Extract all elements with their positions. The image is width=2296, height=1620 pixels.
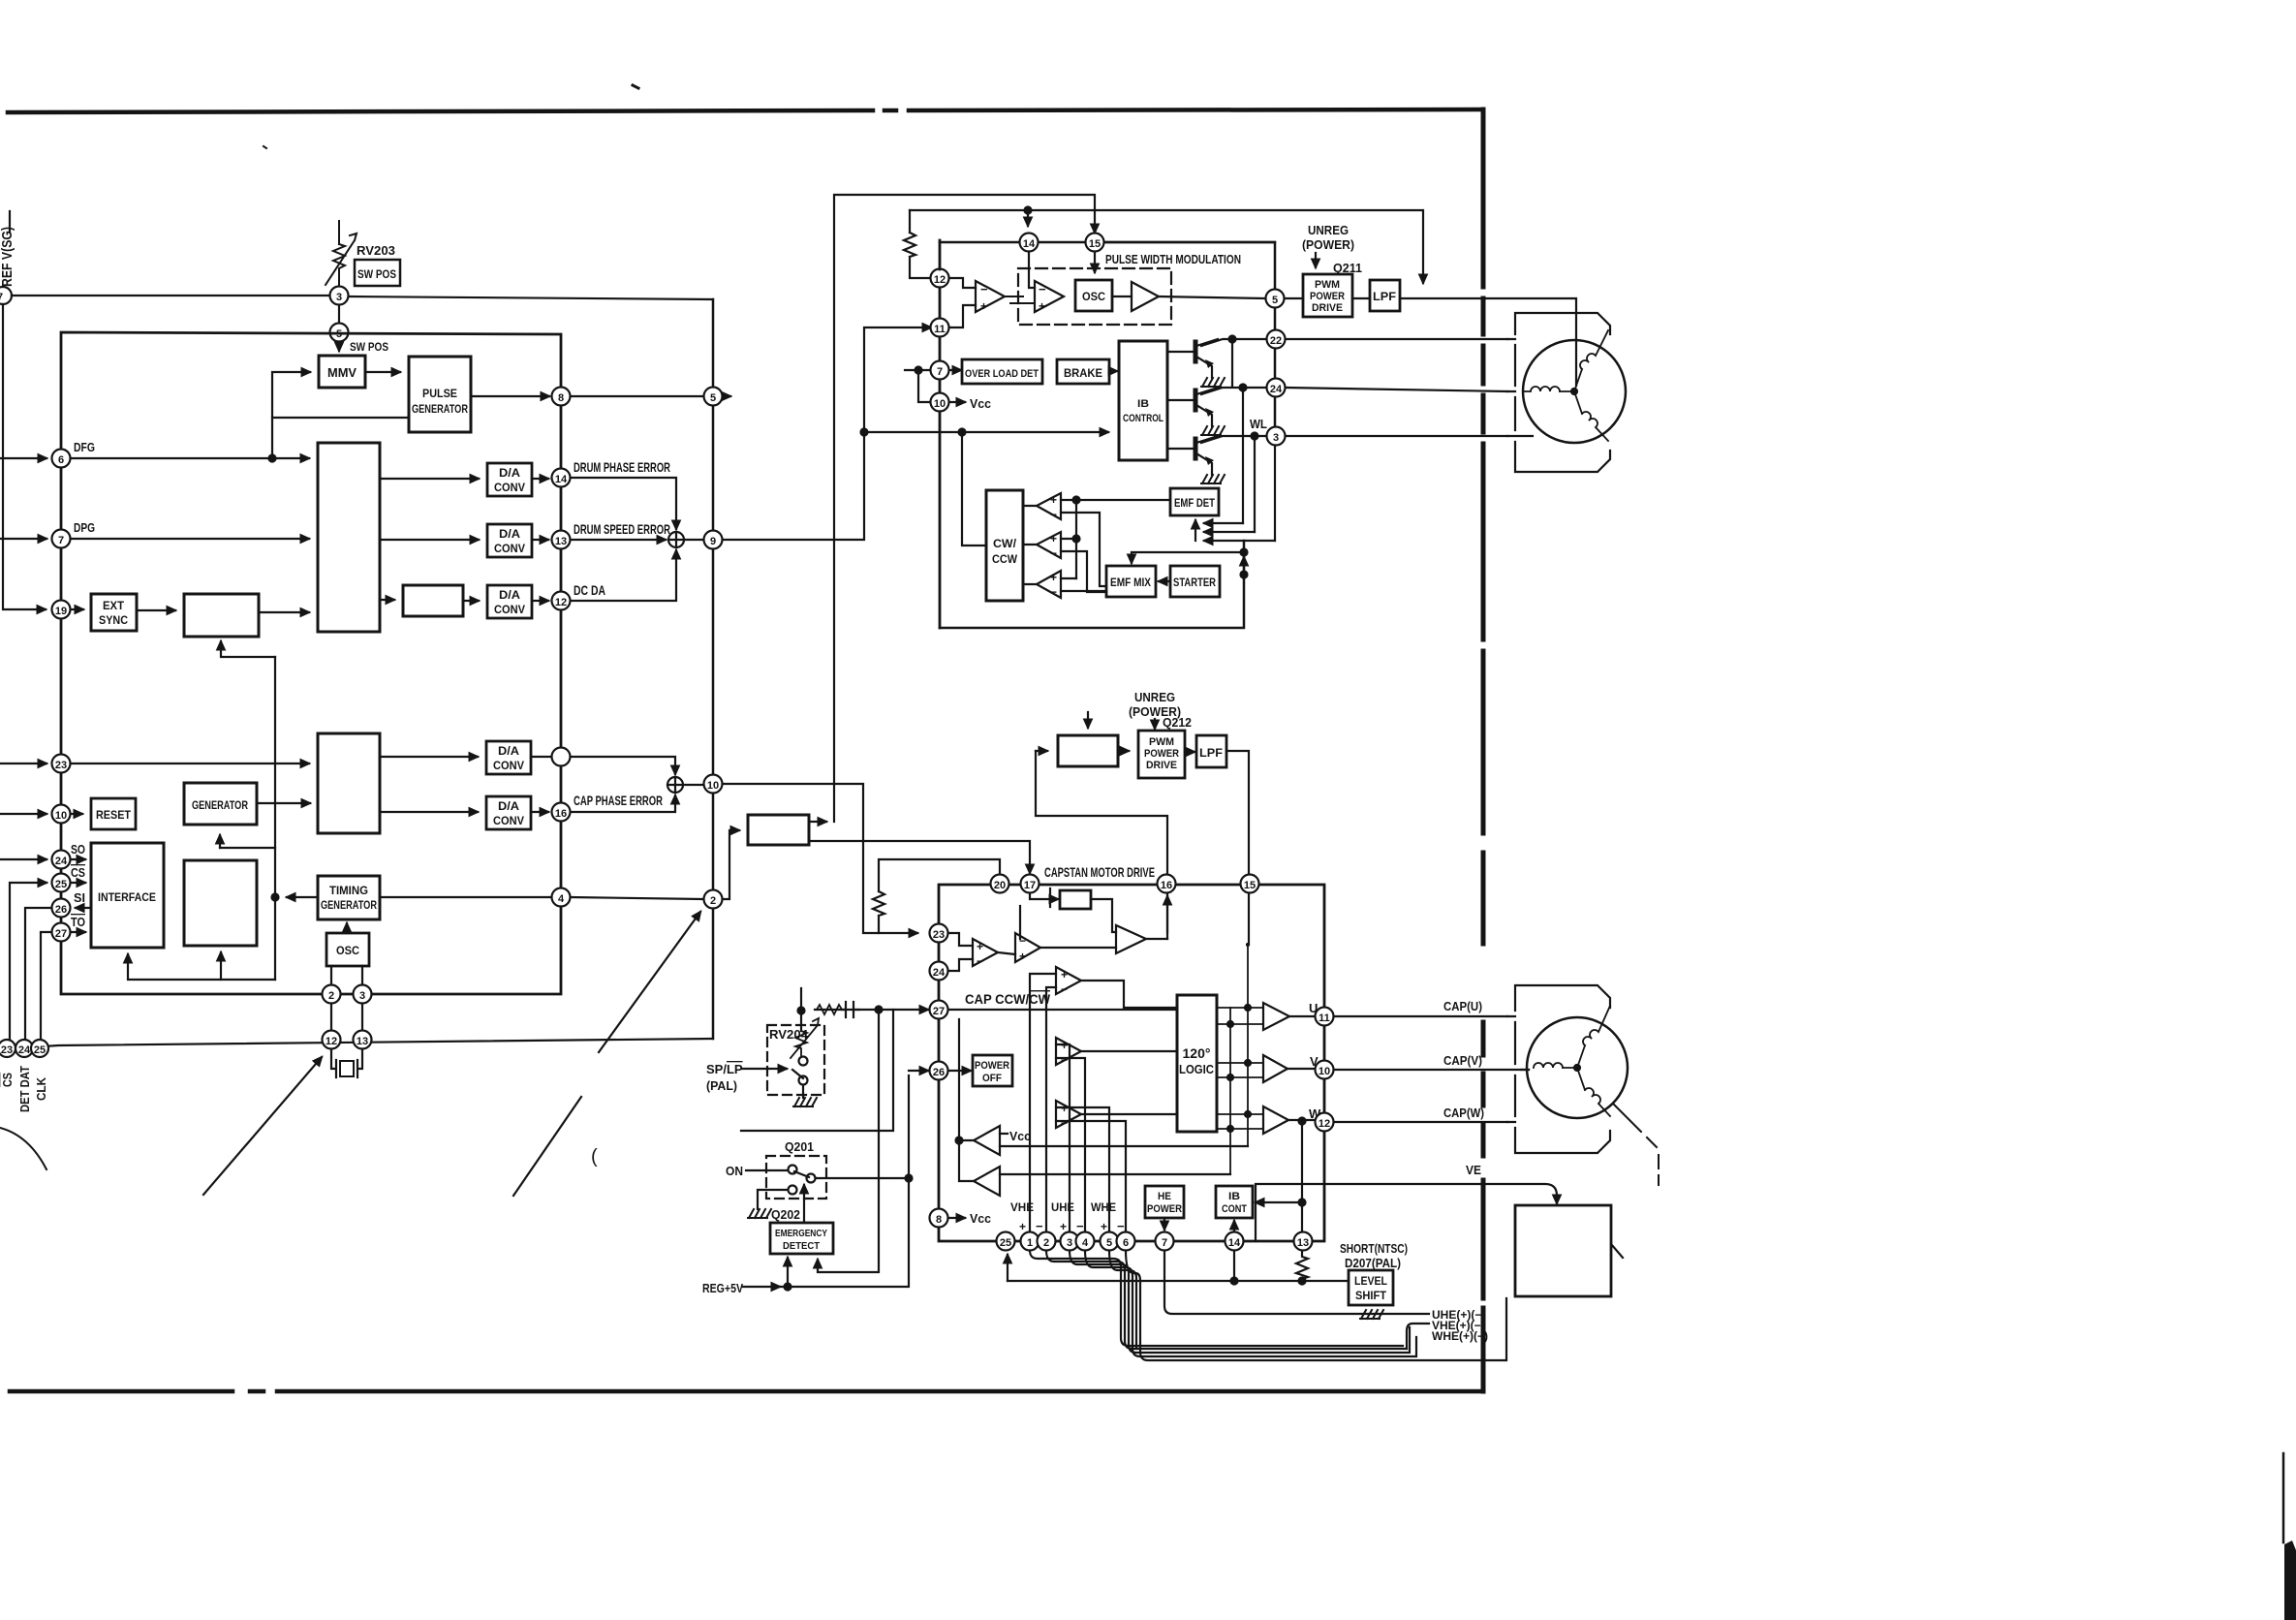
wire pin22 to motor	[1286, 338, 1507, 340]
wire reg5v to pin25	[1007, 1255, 1008, 1281]
svg-text:CONTROL: CONTROL	[1123, 413, 1164, 424]
svg-text:(POWER): (POWER)	[1302, 237, 1354, 252]
svg-text:7: 7	[58, 535, 64, 546]
wire pin3 to pin5	[338, 305, 340, 323]
svg-text:VE: VE	[1466, 1163, 1481, 1177]
wire OSC pins down	[331, 966, 362, 984]
svg-text:CAP(U): CAP(U)	[1443, 999, 1482, 1013]
ground (Q3)	[1201, 475, 1225, 483]
svg-text:−: −	[1050, 546, 1057, 560]
node REF V(SG) label	[0, 227, 16, 287]
pin 12 (cap W)	[1316, 1113, 1334, 1132]
svg-text:6: 6	[58, 454, 64, 466]
svg-text:−: −	[980, 282, 988, 296]
svg-text:13: 13	[357, 1036, 368, 1047]
pin 10 (cap error out)	[704, 775, 723, 794]
wire pin8 vcc	[948, 1217, 965, 1219]
wire into boxF top	[1087, 712, 1089, 728]
svg-text:5: 5	[1106, 1237, 1112, 1249]
svg-text:10: 10	[55, 810, 67, 822]
wire summer2 to pin10b	[683, 784, 702, 786]
box IB CONT	[1216, 1186, 1253, 1218]
wire D/A3 to pin12	[532, 600, 548, 602]
svg-text:PULSE WIDTH MODULATION: PULSE WIDTH MODULATION	[1105, 252, 1241, 266]
svg-text:10: 10	[934, 398, 946, 410]
svg-text:DETECT: DETECT	[783, 1240, 821, 1252]
wire CAP W	[1334, 1121, 1507, 1123]
box D/A CONV 5	[486, 796, 531, 829]
wire transistor1 collector bus	[1201, 339, 1266, 346]
svg-text:OSC: OSC	[1082, 290, 1105, 303]
svg-text:−: −	[977, 954, 983, 968]
svg-text:(PAL): (PAL)	[706, 1078, 737, 1093]
wire amp fb column 1	[1229, 1008, 1231, 1174]
wire rv204 column	[800, 988, 802, 1031]
wire REG to EMERGENCY DETECT	[787, 1258, 789, 1287]
svg-text:EXT: EXT	[103, 599, 125, 612]
svg-text:14: 14	[1228, 1237, 1241, 1249]
svg-text:16: 16	[555, 808, 567, 820]
pin 23 (capstan)	[930, 924, 948, 943]
resistor (pin20 bias)	[873, 891, 884, 933]
box CW/CCW	[986, 490, 1023, 601]
transistor Q (drum W)	[1167, 436, 1218, 475]
svg-text:17: 17	[1024, 880, 1036, 891]
svg-text:14: 14	[1023, 238, 1036, 250]
wire left drop to pin19	[3, 304, 46, 609]
svg-text:+: +	[1061, 968, 1068, 981]
wire pin25 to INTERFACE	[71, 882, 85, 884]
capstan motor coil W	[1585, 1088, 1610, 1116]
svg-text:+: +	[1039, 299, 1045, 313]
box EMF MIX	[1106, 566, 1156, 597]
svg-text:26: 26	[55, 904, 67, 916]
wire GENERATOR bottom feedback	[219, 835, 221, 848]
wire ON to switch	[746, 1169, 787, 1171]
svg-text:22: 22	[1270, 335, 1282, 347]
svg-text:SI: SI	[74, 890, 85, 905]
wire pin14/15 top bus	[940, 241, 1275, 244]
label SW POS	[350, 340, 388, 354]
svg-text:PWM: PWM	[1315, 279, 1340, 291]
svg-text:+: +	[1050, 571, 1057, 584]
drum motor coil V	[1523, 387, 1560, 391]
wire rv204 net	[815, 1009, 928, 1011]
svg-text:CW/: CW/	[993, 537, 1017, 550]
hall bundle line 6	[1126, 1251, 1140, 1353]
svg-text:6: 6	[1123, 1237, 1129, 1249]
pin 3 (osc)	[354, 985, 372, 1004]
svg-text:Q212: Q212	[1163, 715, 1192, 730]
wire D/A2 to pin13	[532, 539, 548, 541]
svg-text:LEVEL: LEVEL	[1354, 1276, 1387, 1288]
label UNREG (POWER)	[1302, 223, 1354, 252]
label CLK vertical	[34, 1076, 48, 1101]
svg-text:UNREG: UNREG	[1308, 223, 1349, 237]
wire ampW out	[1023, 583, 1037, 585]
svg-text:24: 24	[55, 856, 68, 867]
svg-text:5: 5	[710, 392, 716, 404]
svg-text:STARTER: STARTER	[1173, 577, 1217, 589]
wire BRAKE to IB CONTROL	[1109, 370, 1117, 372]
pin 3 (cap)	[1061, 1232, 1079, 1251]
wire boxE out to drum riser	[809, 821, 826, 823]
svg-text:20: 20	[994, 880, 1006, 891]
svg-text:Q202: Q202	[771, 1207, 800, 1222]
wire Q201 out to pin26 riser	[816, 1075, 909, 1178]
pin 11 (drum)	[931, 319, 949, 337]
pin 4 (cap)	[1076, 1232, 1095, 1251]
wire pin5b arrow out	[723, 395, 730, 397]
svg-text:D207(PAL): D207(PAL)	[1345, 1257, 1401, 1270]
box SW POS (RV203)	[355, 260, 400, 286]
label CAP PHASE ERROR	[574, 793, 663, 808]
drum motor center node	[1571, 389, 1577, 394]
wire DPG in	[0, 538, 47, 540]
svg-text:23: 23	[55, 760, 67, 771]
switch Q201	[789, 1166, 797, 1174]
box HE POWER	[1145, 1186, 1184, 1218]
pin 14	[552, 469, 571, 487]
wire D/A5 to pin16	[531, 811, 548, 813]
label WHE(+)(-)	[1432, 1329, 1488, 1343]
wire pin2 riser	[1046, 987, 1056, 1231]
op-amp (pwm comparator)	[1035, 281, 1064, 312]
label CAP CCW/CW	[965, 991, 1051, 1007]
wire SP/LP to switch	[742, 1068, 787, 1070]
wire buffer to pin5c	[1159, 296, 1264, 298]
pin 27	[52, 923, 71, 942]
svg-text:3: 3	[1067, 1237, 1072, 1249]
dashed box Q201	[766, 1156, 826, 1199]
wire boxD to D/A3	[463, 600, 479, 602]
resistor (sp/lp)	[817, 1005, 842, 1014]
wire pin7 to pin3 to corner (outer top edge)	[12, 295, 330, 296]
wire pin17 to delay box	[1030, 893, 1058, 899]
svg-text:26: 26	[933, 1067, 945, 1078]
box IB CONTROL	[1119, 341, 1167, 460]
wire pin26 row	[909, 1070, 928, 1072]
svg-text:8: 8	[936, 1214, 942, 1226]
svg-text:+: +	[1060, 1220, 1067, 1233]
svg-text:24: 24	[933, 967, 946, 979]
label UHE(+)(-)	[1432, 1308, 1485, 1322]
wire CS from bottom	[10, 883, 47, 1041]
ground (Q1)	[1201, 378, 1225, 387]
wire boxE out to pin17	[809, 841, 1030, 873]
rect1 (drum counter)	[318, 443, 380, 632]
wire pin13 to summer1	[571, 539, 666, 541]
svg-text:CAP(W): CAP(W)	[1443, 1106, 1484, 1120]
wire ampA to ampB	[998, 952, 1015, 954]
svg-text:+: +	[977, 940, 983, 953]
node bottom edge circle 24	[16, 1040, 33, 1057]
svg-text:3: 3	[1273, 432, 1279, 444]
wire rv net drop	[818, 1010, 879, 1272]
svg-text:10: 10	[1319, 1066, 1330, 1077]
svg-text:PULSE: PULSE	[422, 387, 457, 400]
dashed stub before delay box	[1049, 888, 1051, 910]
wire vcc stub to pin7/pin10	[905, 369, 930, 371]
pin 7 (cap)	[1156, 1232, 1174, 1251]
svg-text:Q201: Q201	[785, 1139, 814, 1154]
pin 25	[52, 874, 71, 892]
vcc amp G2	[974, 1167, 1000, 1196]
dashed box PULSE WIDTH MODULATION	[1018, 268, 1171, 325]
svg-text:2: 2	[710, 895, 716, 907]
wire pin10 Vcc arrow	[949, 401, 965, 403]
svg-text:EMERGENCY: EMERGENCY	[775, 1228, 827, 1239]
wire pin23 to ampA	[948, 933, 973, 946]
hall return long line	[1140, 1298, 1506, 1360]
pin 6	[52, 450, 71, 468]
pin 2 (cap)	[1038, 1232, 1056, 1251]
svg-text:PWM: PWM	[1149, 736, 1174, 748]
cable bundle arc	[0, 1128, 47, 1169]
op-amp (drum error)	[976, 281, 1005, 312]
pin 8	[552, 388, 571, 406]
wire VHE row	[1407, 1324, 1429, 1349]
dashed box RV204	[767, 1025, 824, 1095]
wire pin24 to motor	[1286, 388, 1507, 391]
svg-text:−: −	[1061, 982, 1068, 996]
wire pin26 from INTERFACE	[76, 907, 91, 909]
speck left	[264, 146, 266, 148]
svg-text:D/A: D/A	[499, 527, 520, 541]
wire DFG in	[0, 457, 47, 459]
wire pin3b drop	[1274, 446, 1276, 541]
drive amp U	[1263, 1003, 1289, 1030]
page bottom border	[10, 1343, 1483, 1391]
wire starter drop	[1243, 557, 1245, 575]
pin 2 (timing out)	[704, 890, 723, 909]
wire EMF DET inputs	[1195, 520, 1196, 541]
box EMF DET	[1170, 488, 1219, 515]
wire open pin to summer2 top	[571, 757, 675, 774]
box MMV	[319, 356, 365, 388]
box FG (capstan fg)	[1515, 1205, 1611, 1296]
svg-text:3: 3	[336, 292, 342, 303]
box F (capstan lpf in)	[1058, 735, 1118, 766]
pin 6 (cap)	[1117, 1232, 1135, 1251]
wire PG out to pin8	[471, 395, 549, 397]
svg-text:D/A: D/A	[499, 588, 520, 602]
wire pin5 arrow to MMV	[338, 342, 340, 351]
node open circle	[552, 748, 571, 766]
svg-text:CCW: CCW	[992, 552, 1018, 566]
wire ampU minus in	[1061, 513, 1106, 586]
wire amp fb column 2	[1247, 945, 1249, 1146]
svg-text:TIMING: TIMING	[329, 884, 368, 897]
wire feedback into box2 bottom	[221, 641, 275, 657]
svg-text:RESET: RESET	[96, 808, 132, 822]
box D/A CONV 2	[487, 524, 532, 557]
wire pin10 to RESET	[71, 813, 82, 815]
wire ampU to pin11	[1289, 1015, 1315, 1017]
pin 16	[552, 803, 571, 822]
pin 24	[1267, 379, 1286, 397]
wire CAP U	[1334, 1015, 1507, 1017]
svg-text:Vcc: Vcc	[970, 396, 991, 411]
pin 5 (cap)	[1101, 1232, 1119, 1251]
box PWM POWER DRIVE Q211	[1303, 274, 1352, 317]
wire ampB top in	[1019, 906, 1021, 939]
summer (capstan)	[667, 777, 683, 793]
label TO bar	[71, 915, 85, 929]
svg-text:11: 11	[1319, 1012, 1330, 1024]
wire rect1 to boxD	[380, 599, 394, 601]
svg-text:7: 7	[0, 292, 3, 303]
wire amp1 to amp2	[1005, 296, 1035, 303]
svg-text:25: 25	[34, 1044, 46, 1056]
svg-text:CONV: CONV	[494, 481, 525, 494]
pin 4	[552, 888, 571, 907]
wire G1 input	[1000, 1145, 1248, 1147]
svg-text:OSC: OSC	[336, 944, 359, 957]
label RV204	[769, 1027, 809, 1042]
label CS bar	[71, 865, 85, 880]
pin 12 (drum)	[931, 269, 949, 288]
wire pin16 up arrow	[1166, 896, 1168, 939]
pin 12	[552, 592, 571, 610]
capstan motor center node	[1574, 1065, 1580, 1071]
wire SI down	[25, 908, 51, 1041]
drum motor bracket	[1507, 313, 1610, 472]
label UNREG (POWER) capstan	[1129, 690, 1181, 719]
pin 25 (capstan)	[997, 1232, 1015, 1251]
wire pin3 riser	[1056, 1044, 1070, 1231]
svg-text:GENERATOR: GENERATOR	[192, 798, 248, 812]
wire riser to MMV input	[272, 372, 310, 458]
pin 14 (cap)	[1226, 1232, 1244, 1251]
wire pin15 riser	[1248, 893, 1250, 945]
box RESET	[91, 798, 136, 829]
hall bundle line 4	[1085, 1251, 1416, 1356]
svg-text:WL: WL	[1250, 417, 1267, 431]
capstan motor bracket	[1507, 985, 1610, 1153]
comparator B (capstan)	[1015, 933, 1040, 962]
wire rect1 to D/A1	[380, 478, 479, 480]
pin 5 (drum pwm out)	[1266, 290, 1285, 308]
wire pin19 to EXT SYNC	[71, 608, 83, 610]
wire pin16 to summer2 bottom	[571, 795, 675, 812]
wire osc pins to xtal pins	[331, 1004, 362, 1030]
label CAPSTAN MOTOR DRIVE	[1044, 864, 1155, 880]
svg-text:27: 27	[55, 928, 67, 940]
svg-text:SW POS: SW POS	[350, 340, 388, 354]
label SHORT(NTSC) D207(PAL)	[1340, 1242, 1408, 1270]
svg-text:8: 8	[558, 392, 564, 404]
label paren mark	[591, 1146, 598, 1168]
drum motor stator circle	[1523, 340, 1626, 443]
wire HE POWER to pin7	[1164, 1218, 1165, 1230]
box LEVEL SHIFT	[1349, 1270, 1393, 1305]
svg-text:25: 25	[55, 879, 67, 890]
svg-text:10: 10	[707, 780, 719, 792]
FG box tick	[1611, 1244, 1623, 1258]
wire UNREG2 drop	[1154, 719, 1156, 729]
diagonal pointer to pin12	[203, 1057, 322, 1195]
svg-text:D/A: D/A	[498, 744, 519, 758]
svg-text:12: 12	[555, 597, 567, 608]
label DC DA	[574, 582, 605, 598]
pin 3 (WL)	[1267, 427, 1286, 446]
label REG+5V	[702, 1281, 743, 1295]
box STARTER	[1170, 566, 1220, 597]
svg-text:D/A: D/A	[498, 799, 519, 813]
svg-text:TO: TO	[71, 915, 85, 929]
page right border dashed column	[1481, 109, 1486, 1391]
svg-text:UHE: UHE	[1051, 1200, 1074, 1214]
wire pin4 to pin2b	[571, 897, 702, 899]
svg-text:15: 15	[1244, 880, 1256, 891]
svg-text:CAPSTAN MOTOR DRIVE: CAPSTAN MOTOR DRIVE	[1044, 864, 1155, 880]
box D/A CONV 1	[487, 463, 532, 496]
inner IC box (drum/cap servo digital)	[61, 332, 561, 994]
svg-text:OFF: OFF	[982, 1073, 1002, 1084]
wire pin2b to boxE	[723, 830, 739, 899]
wire pin3b to motor	[1286, 435, 1507, 437]
svg-text:CONV: CONV	[494, 603, 525, 616]
label V	[1310, 1054, 1319, 1069]
box E (drum lpf)	[748, 815, 809, 845]
label CAP(V)	[1443, 1053, 1482, 1068]
pin 22	[1267, 330, 1286, 349]
svg-text:1: 1	[1027, 1237, 1033, 1249]
speck top	[633, 85, 638, 88]
svg-text:WHE: WHE	[1091, 1200, 1116, 1214]
wire boxF to PWM PD2	[1118, 750, 1129, 752]
svg-text:120°: 120°	[1183, 1045, 1211, 1061]
label DRUM SPEED ERROR	[574, 521, 670, 537]
box INTERFACE	[91, 843, 164, 948]
wire EXT SYNC to box2	[137, 609, 175, 611]
pin 19	[52, 601, 71, 619]
wire CAP V	[1334, 1069, 1529, 1071]
rect2 (capstan counter)	[318, 733, 380, 833]
wire emf in W	[1204, 540, 1275, 542]
wire ampV minus in	[1061, 551, 1106, 592]
wire ampV out	[1023, 544, 1037, 545]
label Q202	[771, 1207, 800, 1222]
wire pin23 in	[0, 763, 47, 764]
comparator (emf W)	[1037, 571, 1061, 598]
wire pin15 to OSC	[1094, 252, 1096, 272]
wire UNREG to Q211	[1315, 253, 1317, 267]
wire pin12 to amp	[949, 278, 976, 288]
svg-text:CONT: CONT	[1222, 1203, 1247, 1215]
wire feedback top bus	[910, 210, 1423, 283]
hall bundle line 1	[1030, 1251, 1403, 1346]
svg-text:CAP CCW/CW: CAP CCW/CW	[965, 991, 1051, 1007]
wire G2 out	[959, 1019, 974, 1181]
svg-text:REG+5V: REG+5V	[702, 1281, 743, 1295]
box 120 LOGIC	[1177, 995, 1217, 1132]
capstan motor stator circle	[1527, 1017, 1628, 1118]
wire ampW to pin12	[1288, 1119, 1315, 1121]
wire bottom feedback bus	[128, 954, 275, 980]
wire feedback vertical	[274, 657, 276, 980]
svg-text:4: 4	[558, 893, 565, 905]
wire pin4 riser	[1056, 1058, 1085, 1231]
wire GENERATOR to rect2	[257, 802, 310, 804]
wire osc to buffer	[1112, 296, 1132, 297]
switch (sp/lp)	[799, 1057, 808, 1066]
page top border	[8, 109, 1481, 112]
wire boxF feedback loop	[1036, 751, 1167, 932]
svg-text:SHORT(NTSC): SHORT(NTSC)	[1340, 1242, 1408, 1256]
wire dot24 drop	[1242, 388, 1244, 523]
